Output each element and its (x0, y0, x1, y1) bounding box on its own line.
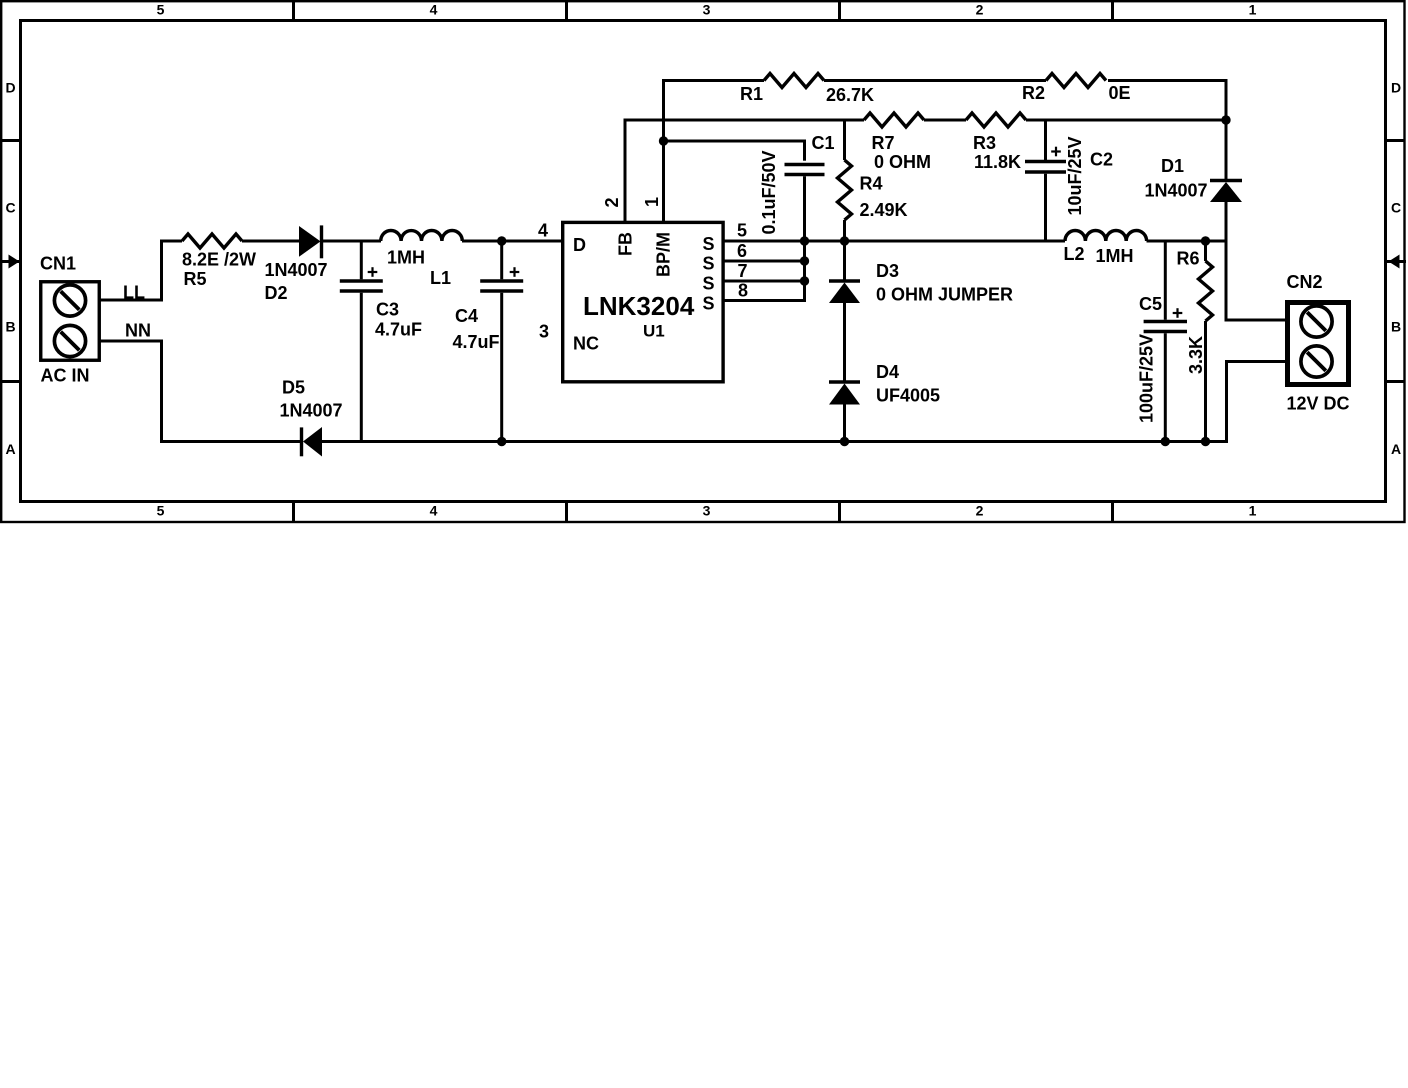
wire U1 pin 6 (723, 260, 803, 263)
U1 designator (643, 322, 665, 341)
junction D4 bottom rail (840, 437, 849, 446)
right sheet input arrow (1389, 255, 1407, 269)
C3 designator (376, 299, 399, 319)
svg-text:S: S (703, 234, 715, 254)
svg-text:7: 7 (738, 261, 748, 281)
svg-text:0 OHM JUMPER: 0 OHM JUMPER (876, 284, 1013, 304)
svg-text:1MH: 1MH (387, 247, 425, 267)
junction R6 bottom rail (1201, 437, 1210, 446)
L1 designator (430, 268, 451, 288)
D4 value UF4005 (876, 385, 940, 405)
D1 designator (1161, 156, 1184, 176)
U1 pin S labels (703, 234, 715, 314)
svg-text:2: 2 (976, 503, 984, 519)
svg-text:4: 4 (430, 503, 438, 519)
junction BP/M - C1 branch (659, 136, 668, 145)
inductor L1 (381, 231, 463, 242)
R2 designator (1022, 83, 1045, 103)
svg-text:3: 3 (539, 322, 549, 342)
svg-text:U1: U1 (643, 322, 665, 341)
svg-text:3: 3 (703, 2, 711, 18)
R6 designator (1177, 248, 1200, 268)
R6 value 3.3K (1186, 336, 1206, 374)
junction S bus pin5 (800, 236, 809, 245)
CN1 function label AC IN (41, 365, 90, 385)
wire L2 to output node (1147, 240, 1227, 243)
D3 value 0 OHM JUMPER (876, 284, 1013, 304)
R3 value 11.8K (974, 152, 1021, 172)
svg-text:D2: D2 (265, 283, 288, 303)
U1 pin 2 number (602, 197, 622, 207)
svg-text:1: 1 (1249, 2, 1257, 18)
U1 pin 1 number (642, 197, 662, 207)
wire net NN from CN1 to bottom rail (100, 340, 162, 444)
svg-text:C2: C2 (1090, 149, 1113, 169)
D5 value 1N4007 (280, 401, 343, 421)
svg-text:8.2E /2W: 8.2E /2W (182, 249, 256, 269)
wire R7 to R3 (924, 119, 966, 122)
svg-text:0E: 0E (1109, 83, 1131, 103)
svg-text:2: 2 (976, 2, 984, 18)
node label NN (125, 321, 151, 341)
svg-text:C: C (1391, 200, 1401, 216)
C1 value 0.1uF/50V (759, 150, 779, 234)
CN2 function label 12V DC (1287, 393, 1350, 413)
D2 value 1N4007 (265, 260, 328, 280)
svg-text:2.49K: 2.49K (860, 200, 908, 220)
svg-text:C3: C3 (376, 299, 399, 319)
R7 designator (872, 133, 895, 153)
U1 pin NC label (573, 333, 599, 353)
D1 value 1N4007 (1145, 180, 1208, 200)
svg-text:AC IN: AC IN (41, 365, 90, 385)
C5 designator (1139, 294, 1162, 314)
wire D2 to L1 (322, 240, 381, 243)
svg-text:0.1uF/50V: 0.1uF/50V (759, 150, 779, 234)
C2 designator (1090, 149, 1113, 169)
wire C1 bottom / S bus (803, 176, 806, 302)
svg-text:LL: LL (123, 283, 145, 303)
resistor R7 (864, 113, 924, 127)
wire output to CN2 plus terminal (1226, 319, 1287, 322)
svg-text:1MH: 1MH (1096, 246, 1134, 266)
svg-text:5: 5 (157, 503, 165, 519)
diode D3 (0 ohm jumper) (829, 241, 860, 381)
svg-text:2: 2 (602, 197, 622, 207)
svg-text:D3: D3 (876, 261, 899, 281)
R4 value 2.49K (860, 200, 908, 220)
CN1 designator label (40, 254, 76, 274)
R3 designator (973, 133, 996, 153)
svg-text:R7: R7 (872, 133, 895, 153)
L2 designator (1064, 244, 1085, 264)
U1 pin 5 number (737, 220, 747, 240)
junction R2/R3 row (1221, 115, 1230, 124)
wire R2 to output sense corner (1108, 79, 1228, 180)
U1 pin D label (573, 235, 586, 255)
svg-text:1: 1 (1249, 503, 1257, 519)
R4 designator (860, 173, 883, 193)
svg-text:D4: D4 (876, 362, 899, 382)
U1 pin 7 number (738, 261, 748, 281)
resistor R2 (1046, 74, 1106, 88)
svg-text:D5: D5 (282, 377, 305, 397)
capacitor C1 (785, 165, 825, 175)
junction switching node / R4 / D3 (840, 236, 849, 245)
D2 designator (265, 283, 288, 303)
svg-text:NN: NN (125, 321, 151, 341)
wire U1 pin 8 (723, 299, 806, 302)
junction S bus pin7 (800, 276, 809, 285)
diode D2 (299, 225, 322, 258)
U1 name LNK3204 (583, 291, 695, 321)
svg-text:4: 4 (430, 2, 438, 18)
svg-text:FB: FB (615, 232, 635, 256)
U1 pin 4 number (538, 220, 548, 240)
svg-text:C4: C4 (455, 306, 478, 326)
svg-text:A: A (5, 441, 15, 457)
svg-text:12V DC: 12V DC (1287, 393, 1350, 413)
op-amp U1 LNK3204 body (563, 222, 723, 381)
R2 value 0E (1109, 83, 1131, 103)
junction C4 top (497, 236, 506, 245)
svg-text:1: 1 (642, 197, 662, 207)
wire U1 pin 5 / switching node rail to L2 (723, 240, 1065, 243)
wire C1 top from BP/M junction (664, 140, 805, 161)
wire R1 row left (662, 79, 764, 82)
inductor L2 (1065, 231, 1147, 242)
U1 pin BP/M label (653, 232, 673, 277)
connector CN2 (1288, 303, 1349, 385)
diode D1 (1210, 181, 1242, 322)
svg-text:C5: C5 (1139, 294, 1162, 314)
svg-text:CN1: CN1 (40, 254, 76, 274)
wire U1 pin 2 FB stub (624, 119, 627, 223)
U1 pin FB label (615, 232, 635, 256)
wire net LL from CN1 to R5 (100, 240, 182, 302)
svg-text:C: C (5, 200, 15, 216)
svg-text:D1: D1 (1161, 156, 1184, 176)
svg-text:B: B (1391, 319, 1401, 335)
capacitor C4 (480, 241, 523, 443)
wire U1 pin 7 (723, 280, 803, 283)
wire bottom return rail left (162, 440, 301, 443)
left sheet input arrow (1, 255, 20, 269)
svg-text:5: 5 (737, 220, 747, 240)
D4 designator (876, 362, 899, 382)
junction C5 bottom rail (1161, 437, 1170, 446)
wire R3 to junction at D1 column (1026, 119, 1226, 122)
R1 designator (740, 84, 763, 104)
svg-text:100uF/25V: 100uF/25V (1137, 334, 1157, 423)
wire bottom return rail right (322, 440, 1227, 443)
svg-text:R5: R5 (184, 269, 207, 289)
svg-text:1N4007: 1N4007 (280, 401, 343, 421)
svg-text:8: 8 (738, 280, 748, 300)
svg-text:S: S (703, 274, 715, 294)
junction C4 bottom (497, 437, 506, 446)
svg-text:3.3K: 3.3K (1186, 336, 1206, 374)
R7 value 0 OHM (874, 152, 931, 172)
wire R5 to D2 (242, 240, 299, 243)
C2 value 10uF/25V (1065, 136, 1085, 215)
resistor R4 (838, 119, 852, 243)
svg-text:4.7uF: 4.7uF (453, 332, 500, 352)
wire BP/M stub up to R1 (662, 79, 665, 222)
svg-text:UF4005: UF4005 (876, 385, 940, 405)
svg-text:6: 6 (737, 241, 747, 261)
diode D4 (829, 382, 860, 443)
svg-text:3: 3 (703, 503, 711, 519)
svg-text:11.8K: 11.8K (974, 152, 1021, 172)
svg-text:D: D (573, 235, 586, 255)
svg-text:A: A (1391, 441, 1401, 457)
svg-text:D: D (1391, 80, 1401, 96)
D5 designator (282, 377, 305, 397)
svg-text:BP/M: BP/M (653, 232, 673, 277)
svg-text:NC: NC (573, 333, 599, 353)
connector CN1 (41, 282, 100, 361)
capacitor C3 (340, 240, 383, 444)
C5 value 100uF/25V (1137, 334, 1157, 423)
C1 designator (812, 133, 835, 153)
svg-text:D: D (5, 80, 15, 96)
node label LL (123, 283, 145, 303)
junction R6 top output node (1201, 236, 1210, 245)
U1 pin 6 number (737, 241, 747, 261)
svg-text:R6: R6 (1177, 248, 1200, 268)
svg-text:R1: R1 (740, 84, 763, 104)
svg-text:C1: C1 (812, 133, 835, 153)
svg-text:10uF/25V: 10uF/25V (1065, 136, 1085, 215)
diode D5 (302, 427, 323, 457)
svg-text:LNK3204: LNK3204 (583, 291, 695, 321)
resistor R6 (1199, 241, 1213, 443)
svg-text:26.7K: 26.7K (826, 85, 874, 105)
resistor R3 (966, 113, 1026, 127)
capacitor C2 (1025, 119, 1066, 243)
svg-text:4: 4 (538, 220, 548, 240)
svg-text:1N4007: 1N4007 (1145, 180, 1208, 200)
svg-text:0 OHM: 0 OHM (874, 152, 931, 172)
C4 designator (455, 306, 478, 326)
svg-text:R3: R3 (973, 133, 996, 153)
U1 pin 3 number (539, 322, 549, 342)
resistor R1 (764, 74, 824, 88)
capacitor C5 (1144, 241, 1187, 443)
svg-text:R2: R2 (1022, 83, 1045, 103)
svg-text:1N4007: 1N4007 (265, 260, 328, 280)
C3 value 4.7uF (375, 319, 422, 339)
wire L1 to U1 pin 4 (462, 240, 563, 243)
D3 designator (876, 261, 899, 281)
wire FB net horizontal to R7 (624, 119, 865, 122)
svg-text:4.7uF: 4.7uF (375, 319, 422, 339)
U1 pin 8 number (738, 280, 748, 300)
C4 value 4.7uF (453, 332, 500, 352)
svg-text:S: S (703, 254, 715, 274)
R1 value 26.7K (826, 85, 874, 105)
L1 value 1MH (387, 247, 425, 267)
R5 designator (184, 269, 207, 289)
svg-text:CN2: CN2 (1287, 272, 1323, 292)
svg-text:S: S (703, 293, 715, 313)
junction S bus pin6 (800, 256, 809, 265)
wire CN2 minus terminal to bottom rail (1227, 360, 1288, 443)
CN2 designator (1287, 272, 1323, 292)
svg-text:5: 5 (157, 2, 165, 18)
resistor R5 (182, 234, 242, 248)
wire R1 to R2 (824, 79, 1046, 82)
svg-text:B: B (5, 319, 15, 335)
L2 value 1MH (1096, 246, 1134, 266)
svg-text:L2: L2 (1064, 244, 1085, 264)
svg-text:R4: R4 (860, 173, 883, 193)
R5 value 8.2E /2W (182, 249, 256, 269)
svg-text:L1: L1 (430, 268, 451, 288)
